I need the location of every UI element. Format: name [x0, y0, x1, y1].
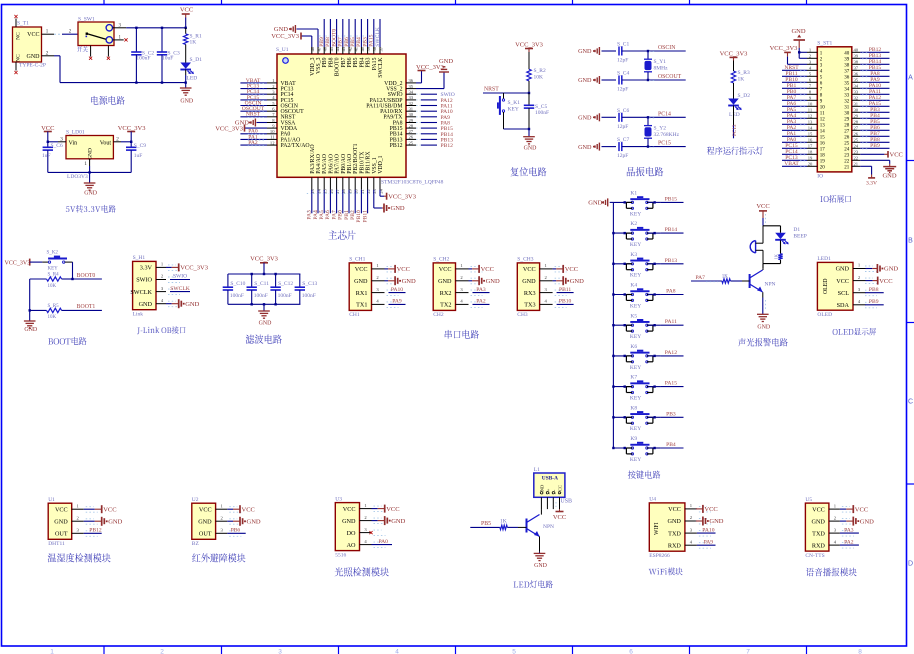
svg-text:13: 13 [310, 188, 315, 193]
svg-text:32.768KHz: 32.768KHz [654, 132, 680, 138]
svg-text:GND: GND [578, 48, 592, 55]
svg-text:GND: GND [578, 115, 592, 122]
svg-text:39: 39 [844, 57, 850, 62]
svg-text:RX2: RX2 [440, 290, 452, 297]
svg-text:S_R3: S_R3 [738, 70, 750, 76]
svg-text:20: 20 [820, 165, 826, 170]
svg-text:BOOT0: BOOT0 [335, 57, 341, 76]
svg-text:STM32F103C8T6_LQFP48: STM32F103C8T6_LQFP48 [381, 179, 444, 185]
svg-text:SWCLK: SWCLK [375, 27, 381, 47]
svg-text:BZ: BZ [192, 541, 200, 547]
svg-text:PB4: PB4 [359, 57, 365, 67]
svg-text:VCC: VCC [668, 506, 681, 513]
svg-text:10uF: 10uF [162, 56, 173, 62]
svg-text:PB12: PB12 [390, 143, 403, 149]
svg-text:WIFI: WIFI [654, 522, 660, 535]
svg-text:S_Y1: S_Y1 [654, 59, 667, 65]
svg-text:S_LD01: S_LD01 [66, 130, 85, 136]
svg-text:VCC: VCC [756, 203, 769, 210]
svg-text:Vin: Vin [69, 140, 78, 146]
svg-text:GND: GND [524, 146, 538, 152]
svg-text:GND: GND [247, 519, 261, 526]
svg-text:GND: GND [198, 519, 212, 526]
svg-text:S_C12: S_C12 [278, 281, 293, 287]
svg-text:PA4: PA4 [313, 210, 319, 220]
svg-text:100nF: 100nF [278, 293, 292, 299]
svg-text:VCC: VCC [812, 506, 825, 513]
svg-text:100nF: 100nF [230, 293, 244, 299]
svg-text:K5: K5 [630, 313, 637, 319]
svg-text:VSS_1: VSS_1 [372, 157, 378, 174]
svg-text:GND: GND [836, 266, 850, 273]
svg-text:15: 15 [820, 135, 826, 140]
svg-text:PB1/AO: PB1/AO [347, 154, 353, 174]
svg-text:K8: K8 [630, 405, 637, 411]
svg-text:PC13: PC13 [732, 124, 738, 136]
svg-text:S_C13: S_C13 [302, 281, 317, 287]
svg-text:PA2: PA2 [248, 140, 258, 146]
svg-text:24: 24 [854, 144, 859, 149]
svg-text:PA2: PA2 [476, 299, 486, 305]
svg-text:GND: GND [578, 144, 592, 151]
svg-text:100nF: 100nF [302, 293, 316, 299]
svg-text:30: 30 [854, 108, 859, 113]
svg-text:100nF: 100nF [136, 56, 150, 62]
svg-text:S_ST1: S_ST1 [817, 40, 832, 46]
svg-text:KEY: KEY [630, 211, 641, 217]
svg-text:CH1: CH1 [349, 312, 360, 318]
svg-text:2: 2 [46, 50, 49, 56]
svg-text:VDD_1: VDD_1 [378, 155, 384, 173]
svg-text:39: 39 [854, 54, 859, 59]
svg-text:GND: GND [709, 518, 723, 525]
svg-text:BEEP: BEEP [793, 234, 806, 240]
svg-text:S_C6: S_C6 [617, 108, 629, 114]
svg-text:OSCOUT: OSCOUT [658, 74, 682, 80]
svg-text:SWCLK: SWCLK [170, 286, 190, 292]
svg-text:GND: GND [439, 58, 453, 65]
svg-text:PB6: PB6 [344, 37, 350, 47]
svg-text:VCC: VCC [855, 506, 868, 513]
svg-text:VCC_3V3: VCC_3V3 [180, 265, 208, 272]
svg-text:VCC: VCC [523, 266, 536, 273]
svg-text:VDD_3: VDD_3 [310, 57, 316, 75]
svg-text:S_CH1: S_CH1 [349, 257, 365, 263]
svg-text:15: 15 [323, 188, 328, 193]
svg-text:GND: GND [24, 327, 38, 333]
svg-text:3.3V: 3.3V [140, 265, 153, 272]
svg-text:OLED: OLED [823, 279, 829, 294]
svg-text:TXD: TXD [668, 530, 681, 537]
svg-text:GND: GND [259, 321, 273, 327]
svg-text:S_D1: S_D1 [190, 57, 203, 63]
svg-text:PA12: PA12 [665, 350, 677, 356]
svg-text:18: 18 [341, 188, 346, 193]
svg-text:1K: 1K [738, 77, 745, 83]
svg-text:VCC: VCC [890, 152, 903, 159]
svg-text:PA4/AO: PA4/AO [316, 154, 322, 174]
svg-text:GND: GND [534, 563, 548, 569]
svg-text:PB10: PB10 [356, 210, 362, 223]
svg-text:KEY: KEY [630, 334, 641, 340]
svg-text:VCC: VCC [836, 278, 849, 285]
svg-text:14: 14 [820, 129, 826, 134]
svg-text:34: 34 [844, 87, 850, 92]
svg-text:22: 22 [366, 188, 371, 193]
svg-text:5516: 5516 [335, 552, 346, 558]
svg-text:32: 32 [844, 99, 850, 104]
svg-text:GND: GND [185, 301, 199, 308]
svg-text:PB9: PB9 [870, 143, 880, 149]
svg-text:PA9: PA9 [392, 299, 402, 305]
svg-text:33: 33 [854, 90, 859, 95]
svg-text:1: 1 [50, 649, 54, 654]
svg-text:7: 7 [746, 649, 750, 654]
svg-text:K4: K4 [630, 283, 637, 289]
svg-text:U2: U2 [192, 497, 199, 503]
svg-text:GND: GND [578, 77, 592, 84]
svg-text:S_K2: S_K2 [47, 251, 59, 256]
svg-text:PB9: PB9 [322, 57, 328, 67]
svg-text:DO: DO [347, 530, 356, 537]
svg-text:20: 20 [808, 162, 813, 167]
svg-text:PA6: PA6 [325, 210, 331, 220]
svg-text:GND: GND [588, 200, 602, 207]
svg-text:U5: U5 [805, 497, 812, 503]
svg-text:S_SW1: S_SW1 [78, 17, 95, 23]
svg-text:ESP8266: ESP8266 [649, 553, 670, 559]
svg-text:VCC_3V3: VCC_3V3 [215, 125, 243, 132]
svg-text:S_C11: S_C11 [254, 281, 269, 287]
svg-text:PA3: PA3 [844, 527, 854, 533]
svg-text:10K: 10K [48, 284, 57, 289]
svg-text:S_C9: S_C9 [134, 143, 146, 149]
svg-text:GND: GND [108, 519, 122, 526]
svg-text:OUT: OUT [199, 531, 212, 538]
svg-text:KEY: KEY [630, 303, 641, 309]
svg-text:VCC: VCC [355, 266, 368, 273]
svg-text:12: 12 [808, 114, 813, 119]
svg-text:6: 6 [629, 649, 633, 654]
svg-text:Vout: Vout [100, 140, 112, 146]
svg-text:S_CH3: S_CH3 [517, 257, 533, 263]
svg-text:PA11: PA11 [665, 319, 677, 325]
svg-text:PA3/RX/AO: PA3/RX/AO [310, 144, 316, 173]
svg-text:D1: D1 [793, 227, 800, 233]
svg-text:38: 38 [844, 63, 850, 68]
svg-text:35: 35 [854, 78, 859, 83]
svg-text:33: 33 [844, 93, 850, 98]
svg-text:PB13: PB13 [665, 258, 678, 264]
svg-text:PB4: PB4 [666, 442, 676, 448]
svg-text:GND: GND [88, 148, 94, 160]
svg-text:32: 32 [854, 96, 859, 101]
svg-text:PA5/AO: PA5/AO [322, 154, 328, 174]
svg-text:TYPE-C-2P: TYPE-C-2P [19, 63, 46, 69]
svg-text:GND: GND [391, 518, 405, 525]
svg-text:NC: NC [16, 32, 22, 40]
svg-text:LDO3V3: LDO3V3 [67, 174, 88, 180]
svg-text:GND: GND [54, 519, 68, 526]
svg-text:30: 30 [844, 111, 850, 116]
svg-text:PB3: PB3 [666, 411, 676, 417]
svg-text:OSCIN: OSCIN [658, 45, 676, 51]
svg-text:10K: 10K [534, 75, 544, 81]
svg-text:NRST: NRST [484, 87, 499, 93]
svg-text:S_U1: S_U1 [276, 47, 289, 53]
svg-text:48: 48 [310, 46, 315, 51]
svg-text:PC15: PC15 [658, 141, 671, 147]
svg-text:LED: LED [729, 112, 740, 118]
svg-text:PA2: PA2 [844, 539, 854, 545]
svg-text:CH2: CH2 [433, 312, 444, 318]
svg-text:PA10: PA10 [391, 287, 403, 293]
svg-text:GND: GND [860, 518, 874, 525]
svg-text:GND: GND [486, 278, 500, 285]
svg-text:100nF: 100nF [535, 110, 549, 116]
svg-text:OUT: OUT [55, 531, 68, 538]
svg-text:GND: GND [391, 205, 405, 212]
svg-text:27: 27 [854, 126, 859, 131]
svg-text:1K: 1K [774, 253, 779, 259]
svg-text:VCC: VCC [180, 7, 193, 14]
svg-text:12pF: 12pF [617, 58, 628, 64]
svg-text:PB5: PB5 [353, 57, 359, 67]
svg-text:16: 16 [820, 141, 826, 146]
svg-text:RX3: RX3 [524, 290, 536, 297]
svg-text:PA15: PA15 [665, 381, 677, 387]
svg-text:VCC: VCC [343, 506, 356, 513]
svg-text:CH3: CH3 [517, 312, 528, 318]
svg-text:16: 16 [808, 138, 813, 143]
svg-text:28: 28 [844, 123, 850, 128]
svg-text:PB12: PB12 [89, 528, 102, 534]
svg-text:VCC: VCC [397, 266, 410, 273]
svg-text:GND: GND [438, 278, 452, 285]
svg-text:PA15: PA15 [369, 34, 375, 46]
svg-text:25: 25 [854, 138, 859, 143]
svg-text:SCL: SCL [838, 290, 850, 297]
svg-text:GND: GND [757, 324, 771, 330]
svg-text:S_C10: S_C10 [230, 281, 245, 287]
svg-text:VSS_3: VSS_3 [316, 57, 322, 74]
svg-text:16: 16 [329, 188, 334, 193]
svg-text:10: 10 [808, 102, 813, 107]
svg-text:S_C1: S_C1 [617, 42, 629, 48]
svg-text:K3: K3 [630, 252, 637, 258]
svg-text:11: 11 [820, 111, 825, 116]
svg-text:S_R4: S_R4 [48, 272, 60, 277]
svg-text:2: 2 [116, 136, 119, 142]
svg-text:GND: GND [180, 99, 194, 105]
svg-text:100nF: 100nF [254, 293, 268, 299]
svg-text:17: 17 [820, 147, 826, 152]
svg-text:PB6: PB6 [347, 57, 353, 67]
svg-text:VCC: VCC [704, 506, 717, 513]
svg-text:PA7: PA7 [696, 275, 706, 281]
svg-text:PA7: PA7 [331, 210, 337, 220]
svg-text:3: 3 [278, 649, 282, 654]
svg-text:PC14: PC14 [658, 111, 671, 117]
svg-text:VCC: VCC [242, 506, 255, 513]
svg-text:1K: 1K [190, 40, 197, 46]
svg-text:IO: IO [817, 174, 823, 180]
svg-text:10: 10 [820, 105, 826, 110]
svg-text:PA0: PA0 [378, 539, 388, 545]
svg-text:VCC: VCC [565, 266, 578, 273]
svg-text:L1: L1 [534, 467, 540, 473]
svg-text:GND: GND [274, 26, 288, 33]
svg-text:37: 37 [844, 69, 850, 74]
svg-text:12pF: 12pF [617, 124, 628, 130]
svg-text:KEY: KEY [630, 273, 641, 279]
svg-text:S_CH2: S_CH2 [433, 257, 449, 263]
svg-text:PB3: PB3 [362, 37, 368, 47]
svg-text:S_H1: S_H1 [133, 255, 146, 261]
svg-text:PA3: PA3 [476, 287, 486, 293]
svg-text:KEY: KEY [630, 242, 641, 248]
svg-text:PB14: PB14 [665, 227, 678, 233]
svg-text:23: 23 [854, 150, 859, 155]
svg-text:PB5: PB5 [350, 37, 356, 47]
svg-text:20: 20 [354, 188, 359, 193]
svg-text:17: 17 [808, 144, 813, 149]
svg-text:3.3V: 3.3V [866, 181, 877, 187]
svg-text:12pF: 12pF [617, 153, 628, 159]
svg-text:12: 12 [820, 117, 826, 122]
svg-text:35: 35 [844, 81, 850, 86]
svg-text:USB-A: USB-A [542, 476, 558, 482]
svg-text:U3: U3 [335, 496, 342, 502]
svg-text:VCC: VCC [55, 506, 68, 513]
svg-text:PB10/TX: PB10/TX [359, 151, 365, 174]
svg-text:VCC_3V3: VCC_3V3 [250, 255, 278, 262]
svg-text:37: 37 [854, 66, 859, 71]
svg-text:U4: U4 [649, 497, 656, 503]
svg-text:PA3: PA3 [307, 210, 313, 220]
svg-text:PB8: PB8 [325, 37, 331, 47]
svg-text:14: 14 [316, 188, 321, 193]
svg-text:VBAT: VBAT [784, 161, 799, 167]
svg-text:KEY: KEY [48, 266, 59, 271]
svg-text:VCC: VCC [199, 506, 212, 513]
svg-text:U1: U1 [48, 497, 55, 503]
svg-text:18: 18 [808, 150, 813, 155]
svg-text:S_R2: S_R2 [534, 68, 546, 74]
svg-text:GND: GND [884, 266, 898, 273]
svg-text:PB11: PB11 [559, 287, 571, 293]
svg-text:11: 11 [808, 108, 813, 113]
svg-text:SDA: SDA [837, 302, 850, 309]
svg-text:LED: LED [187, 76, 198, 82]
svg-text:B: B [908, 238, 913, 245]
svg-text:GND: GND [570, 278, 584, 285]
svg-text:1uF: 1uF [134, 153, 143, 159]
svg-text:RX1: RX1 [356, 290, 368, 297]
svg-text:S_T1: S_T1 [17, 21, 29, 27]
svg-text:RXD: RXD [668, 542, 682, 549]
svg-text:29: 29 [854, 114, 859, 119]
svg-text:D: D [908, 561, 913, 568]
svg-text:5: 5 [512, 649, 516, 654]
svg-text:PB9: PB9 [869, 299, 879, 305]
svg-text:NPN: NPN [765, 282, 776, 288]
svg-text:GND: GND [354, 278, 368, 285]
svg-text:VCC: VCC [553, 514, 566, 521]
svg-text:29: 29 [844, 117, 850, 122]
svg-text:PA8: PA8 [666, 289, 676, 295]
svg-text:4: 4 [395, 649, 399, 654]
svg-text:LED1: LED1 [817, 256, 831, 262]
svg-text:NRST: NRST [246, 112, 261, 118]
svg-text:S_R5: S_R5 [48, 304, 60, 309]
svg-text:KEY: KEY [630, 457, 641, 463]
svg-text:24: 24 [844, 147, 850, 152]
svg-text:15: 15 [808, 132, 813, 137]
svg-text:13: 13 [820, 123, 826, 128]
svg-text:21: 21 [844, 165, 850, 170]
svg-text:31: 31 [854, 102, 859, 107]
svg-text:26: 26 [844, 135, 850, 140]
svg-text:USB: USB [560, 499, 572, 505]
svg-text:25: 25 [844, 141, 850, 146]
svg-text:PB7: PB7 [338, 37, 344, 47]
svg-text:PB11: PB11 [362, 210, 368, 222]
svg-text:18: 18 [820, 153, 826, 158]
svg-text:PA10: PA10 [702, 527, 714, 533]
svg-text:12pF: 12pF [617, 87, 628, 93]
svg-text:PB3: PB3 [366, 57, 372, 67]
svg-text:PB5: PB5 [481, 521, 491, 527]
svg-text:K1: K1 [630, 191, 637, 197]
svg-text:K6: K6 [630, 344, 637, 350]
svg-text:TX3: TX3 [524, 302, 535, 309]
svg-text:31: 31 [844, 105, 850, 110]
svg-text:PB9: PB9 [319, 37, 325, 47]
svg-text:PB1: PB1 [344, 210, 350, 220]
svg-text:PA2/TX/AO: PA2/TX/AO [281, 143, 310, 149]
svg-text:36: 36 [844, 75, 850, 80]
svg-text:21: 21 [360, 188, 365, 193]
svg-text:2: 2 [160, 649, 164, 654]
svg-text:S_C7: S_C7 [617, 137, 629, 143]
svg-text:3: 3 [60, 136, 63, 142]
svg-text:PB8: PB8 [869, 287, 879, 293]
svg-text:27: 27 [844, 129, 850, 134]
svg-text:PB2/BOOT1: PB2/BOOT1 [353, 143, 359, 173]
svg-text:GND: GND [84, 191, 98, 197]
svg-text:KEY: KEY [508, 107, 519, 113]
svg-text:23: 23 [844, 153, 850, 158]
svg-text:22: 22 [844, 159, 850, 164]
svg-text:8MHz: 8MHz [654, 66, 669, 72]
svg-text:S_D2: S_D2 [738, 93, 751, 99]
svg-text:K2: K2 [630, 221, 637, 227]
svg-text:BOOT1: BOOT1 [77, 304, 96, 310]
svg-text:BOOT0: BOOT0 [77, 273, 96, 279]
svg-text:19: 19 [347, 188, 352, 193]
svg-text:26: 26 [854, 132, 859, 137]
svg-text:VCC_3V3: VCC_3V3 [770, 45, 798, 52]
svg-text:CN-TTS: CN-TTS [805, 553, 824, 559]
svg-text:SWIO: SWIO [173, 274, 187, 280]
svg-text:28: 28 [854, 120, 859, 125]
svg-text:S_C6: S_C6 [51, 143, 63, 149]
svg-text:36: 36 [854, 72, 859, 77]
svg-text:PB12: PB12 [441, 143, 454, 149]
svg-text:VCC: VCC [386, 506, 399, 513]
svg-text:1K: 1K [500, 518, 507, 524]
